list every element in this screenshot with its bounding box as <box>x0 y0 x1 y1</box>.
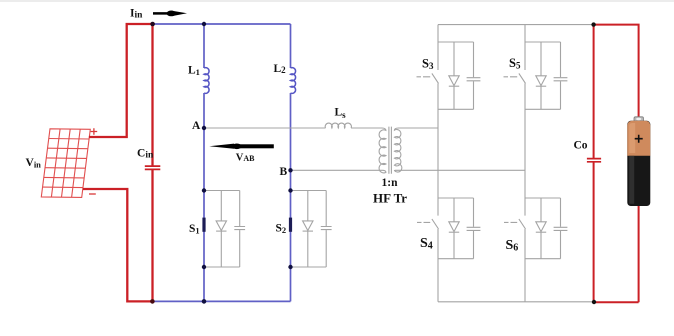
switch S5 <box>504 73 526 83</box>
arrow VAB (pointing left) <box>209 144 273 150</box>
junction dot node A <box>202 126 206 130</box>
wire L1 leg upper <box>203 24 205 68</box>
wire gray bottom bus (output bridge) <box>438 301 594 303</box>
diode D3 <box>449 42 459 109</box>
wire node B to transformer primary bottom <box>291 169 383 171</box>
switch S6 <box>504 219 526 229</box>
junction dot node B <box>288 168 292 172</box>
wire red battery branch bottom <box>594 206 639 303</box>
transformer HF Tr : primary winding <box>379 128 386 173</box>
svg-text:VAB: VAB <box>236 153 255 164</box>
switch S1 (thick bar) <box>202 218 205 232</box>
switch S4 <box>417 219 439 229</box>
capacitor C6 (snubber of S6) <box>554 198 568 259</box>
capacitor C5 (snubber of S5) <box>554 42 568 109</box>
junction dot S1 top <box>202 188 206 192</box>
S6 cell frame <box>525 198 561 259</box>
wire Ls to transformer primary <box>351 127 382 129</box>
capacitor C1 (snubber of S1) <box>234 191 245 268</box>
S3 cell frame <box>438 42 474 109</box>
wire red Co branch <box>593 25 595 303</box>
diode D1 (antiparallel with S1) <box>216 191 226 268</box>
wire blue top bus <box>153 23 291 25</box>
S4 cell frame <box>438 198 474 259</box>
switch S3 <box>417 73 439 83</box>
PV source Vin (solar panel) <box>41 129 90 198</box>
capacitor C3 (snubber of S3) <box>467 42 481 109</box>
S2 snubber branch frame <box>291 191 327 268</box>
junction dot S2 top <box>288 188 292 192</box>
inductor Ls <box>325 123 351 128</box>
wire red battery branch top <box>594 25 639 117</box>
wire secondary top to bridge left leg <box>399 127 439 129</box>
junction dot S2 bottom <box>288 265 292 269</box>
wire node A to Ls <box>204 127 326 129</box>
transformer secondary winding <box>394 128 401 172</box>
inductor L1 <box>204 68 209 94</box>
svg-text:L2: L2 <box>274 63 287 75</box>
wire red negative from PV to bottom bus <box>83 189 152 301</box>
minus terminal mark <box>89 193 96 195</box>
junction dot S1 bottom <box>202 265 206 269</box>
wire gray top bus (output bridge) <box>438 24 594 26</box>
wire red Cin branch <box>151 24 153 301</box>
diode D4 <box>449 198 459 259</box>
svg-text:S2: S2 <box>276 223 287 236</box>
battery (output cell) <box>627 117 650 206</box>
switch S2 (thick bar) <box>289 218 292 232</box>
transformer core bars <box>389 127 392 174</box>
plus terminal mark <box>91 128 98 135</box>
capacitor C2 (snubber of S2) <box>321 191 332 268</box>
svg-text:HF Tr: HF Tr <box>373 191 407 206</box>
wire bridge left leg <box>437 25 439 302</box>
junction dot top right (Co top) <box>591 22 595 26</box>
inductor L2 <box>291 68 296 94</box>
capacitor Cin <box>145 166 161 169</box>
wire secondary bottom to bridge right leg <box>399 169 526 171</box>
junction dot bottom bus red/blue <box>150 299 155 304</box>
svg-text:1:n: 1:n <box>382 177 399 189</box>
svg-text:L1: L1 <box>188 64 200 77</box>
S1 snubber branch frame <box>204 191 240 268</box>
capacitor Co <box>587 159 601 162</box>
arrow Iin (input current, pointing right) <box>153 11 187 17</box>
diode D5 <box>536 42 546 109</box>
junction dot (red wire to Cin top) <box>150 22 155 27</box>
diode D2 (antiparallel with S2) <box>303 191 313 268</box>
wire L2 leg upper <box>290 24 292 68</box>
S5 cell frame <box>525 42 561 109</box>
svg-text:Co: Co <box>574 139 588 151</box>
svg-text:Vin: Vin <box>26 157 42 170</box>
wire L1 leg lower / S1 leg <box>203 93 205 301</box>
wire blue bottom bus <box>152 300 290 302</box>
capacitor C4 (snubber of S4) <box>467 198 481 259</box>
junction dot bottom bus at S1 leg <box>202 299 207 304</box>
wire red positive from PV to top bus <box>89 24 153 137</box>
svg-text:A: A <box>192 120 201 132</box>
junction dot bottom right (Co bottom) <box>592 300 596 304</box>
svg-text:B: B <box>280 166 288 178</box>
wire bridge right leg <box>524 25 526 302</box>
svg-text:S1: S1 <box>189 223 200 236</box>
wire L2 leg lower / S2 leg <box>290 93 292 301</box>
diode D6 <box>536 198 546 259</box>
junction dot (L1 top bus) <box>202 22 206 26</box>
